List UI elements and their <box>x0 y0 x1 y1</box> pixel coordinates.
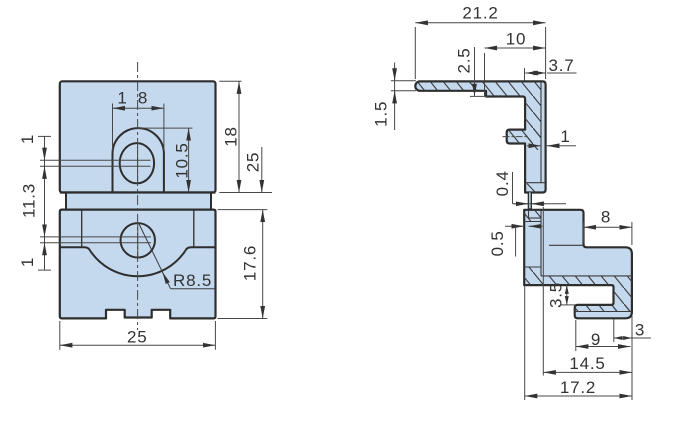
upper hole crosshair vertical <box>137 147 139 181</box>
vertical centerline <box>137 62 139 330</box>
dim 14.5 <box>543 371 632 373</box>
arrow down to slit top <box>44 146 46 160</box>
tab centerline <box>503 136 529 138</box>
svg-text:8: 8 <box>138 89 148 108</box>
upper slit line 2 <box>40 165 151 167</box>
svg-text:3.5: 3.5 <box>547 282 566 308</box>
top block bottom edge <box>60 191 216 193</box>
dim 2.5/25 right line (band) <box>261 147 263 193</box>
R8.5 leader <box>138 223 170 289</box>
middle band right edge <box>210 193 212 210</box>
lower piece hatch <box>523 209 633 312</box>
lower circle crosshair vertical <box>137 223 139 258</box>
middle band left edge <box>65 193 67 210</box>
dim 1:8 line <box>113 107 164 109</box>
svg-text:2.5: 2.5 <box>455 47 474 73</box>
dim 21.2 <box>415 22 545 24</box>
svg-text:1: 1 <box>18 257 37 267</box>
svg-text:14.5: 14.5 <box>569 354 605 373</box>
svg-text:1: 1 <box>560 127 570 146</box>
dim 25 bottom ext lines <box>59 321 61 350</box>
arrow up to 166.3 <box>44 166 46 180</box>
arrow down to 236.9 <box>44 223 46 237</box>
R8.5 arrowhead <box>162 272 170 284</box>
upper piece (L-shape) body <box>415 81 545 192</box>
svg-text:9: 9 <box>591 330 601 349</box>
svg-text:18: 18 <box>222 126 241 147</box>
lower piece body <box>524 210 632 318</box>
lower piece inner lines <box>524 210 632 312</box>
saddle line right <box>185 247 215 251</box>
svg-text:25: 25 <box>244 152 263 173</box>
dim 9 <box>576 346 631 348</box>
svg-text:25: 25 <box>127 328 148 347</box>
upper slit line 1 <box>40 159 151 161</box>
dim 10 <box>485 47 546 49</box>
lower clamp circle <box>121 223 155 257</box>
right view texts <box>372 4 646 398</box>
saddle line left <box>60 247 91 251</box>
dim 17.6 line <box>262 210 264 319</box>
lower slit line 1 <box>40 236 151 238</box>
left view texts <box>18 89 263 347</box>
svg-text:11.3: 11.3 <box>20 183 39 218</box>
R8.5 arc <box>90 251 185 276</box>
svg-text:21.2: 21.2 <box>462 4 498 23</box>
lower slit line 2 <box>40 242 151 244</box>
dim 0.5 <box>505 225 524 227</box>
svg-text:0.5: 0.5 <box>488 230 507 256</box>
hole in boss <box>120 143 154 183</box>
upper piece inner thin lines <box>525 82 546 193</box>
arrow up to 242.7 <box>44 243 46 257</box>
lower block body with feet <box>60 210 216 319</box>
interior vertical edge left <box>81 210 83 248</box>
dim 18 line <box>238 81 240 192</box>
dim 17.2 <box>525 395 632 397</box>
interior vertical edge right <box>193 210 195 248</box>
keyhole boss on top block <box>113 128 164 192</box>
dim 1:8 ext lines <box>112 104 114 151</box>
shelf bottom <box>38 269 51 271</box>
svg-text:17.6: 17.6 <box>241 245 260 281</box>
svg-text:1.5: 1.5 <box>372 101 391 127</box>
svg-text:10.5: 10.5 <box>173 142 192 178</box>
svg-text:3: 3 <box>635 321 645 340</box>
dim 3.5 <box>566 285 568 305</box>
dim 1.5 <box>394 63 396 131</box>
svg-text:17.2: 17.2 <box>560 378 596 397</box>
svg-text:R8.5: R8.5 <box>173 271 212 290</box>
dim 3 <box>614 337 632 339</box>
svg-text:1: 1 <box>117 89 127 108</box>
dim 8 <box>584 226 632 228</box>
shelf top <box>38 135 51 137</box>
right view dimensions <box>391 23 651 400</box>
dim 0.4 <box>513 203 567 205</box>
dim 2.5 <box>474 47 476 96</box>
0.4 blade of upper piece <box>528 193 531 209</box>
left margin dim stack line <box>44 136 46 270</box>
svg-text:3.7: 3.7 <box>548 56 574 75</box>
dim 25 bottom line <box>60 344 216 346</box>
dimensions of left view <box>38 81 272 350</box>
dim 10.5 line <box>188 128 190 192</box>
dim 10.5 ext line top <box>138 127 193 129</box>
right margin ext lines <box>219 80 241 82</box>
middle band body <box>66 193 211 210</box>
svg-text:8: 8 <box>601 208 611 227</box>
svg-text:0.4: 0.4 <box>493 170 512 196</box>
top block body <box>60 81 216 192</box>
dim 3.7 <box>525 72 537 74</box>
svg-text:1: 1 <box>18 134 37 144</box>
upper piece hatch <box>412 78 541 150</box>
dim 1 (tab) <box>527 145 541 147</box>
svg-text:10: 10 <box>506 30 527 49</box>
